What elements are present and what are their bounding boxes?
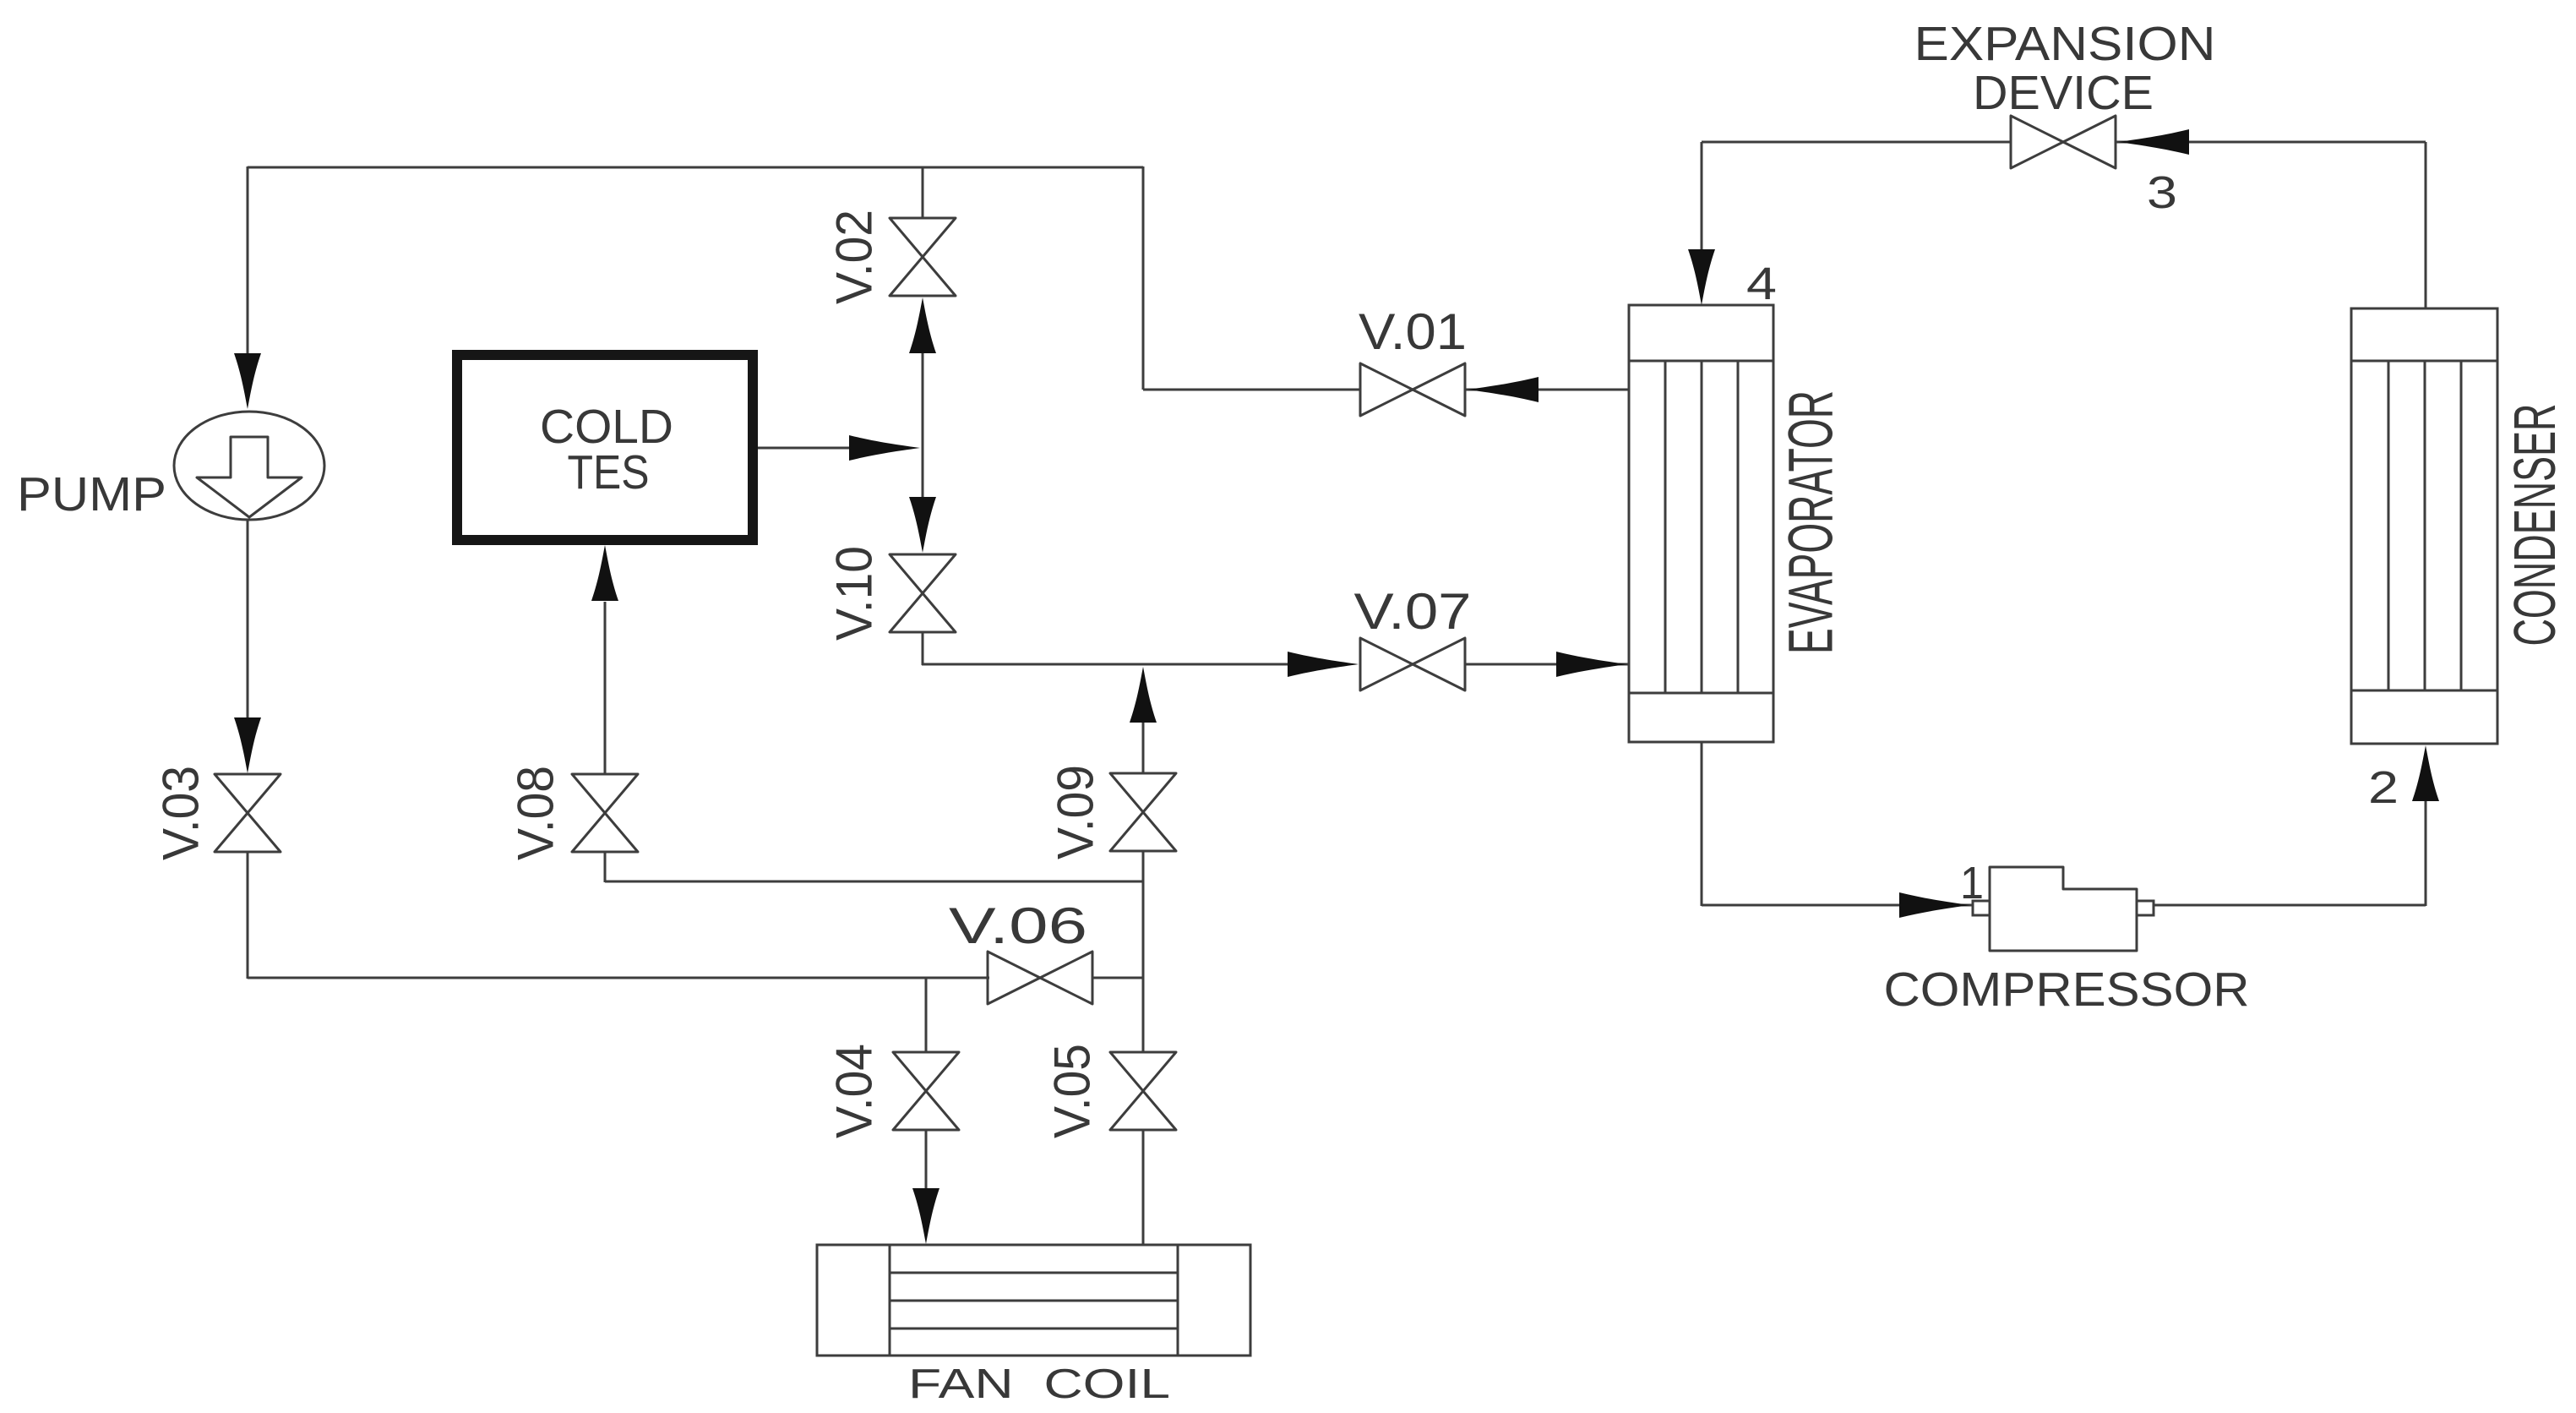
flow arrow into expansion device: [2118, 129, 2189, 155]
wire TES outlet to mixing node: [758, 447, 853, 450]
svg-text:TES: TES: [568, 445, 650, 499]
flow arrow before V.07: [1288, 652, 1359, 677]
label V.10: [826, 546, 883, 641]
pump P1: [174, 412, 324, 520]
wire expansion device to evaporator drop: [1701, 142, 1703, 254]
label TES: [568, 445, 650, 499]
wire V.04 branch drop: [925, 978, 928, 1053]
svg-text:3: 3: [2147, 167, 2177, 218]
evaporator E1: [1629, 305, 1773, 742]
flow arrow into evaporator side: [1556, 652, 1627, 677]
flow arrow into TES bottom: [591, 545, 618, 601]
wire top header from pump riser to V.01 drop: [248, 166, 1143, 169]
wire pump inlet riser: [247, 166, 249, 358]
label PUMP: [17, 467, 166, 521]
svg-text:4: 4: [1746, 259, 1777, 309]
flow arrow into V.03: [234, 717, 261, 773]
label V.07: [1354, 583, 1472, 640]
label V.02: [826, 210, 883, 304]
cold TES tank T1: [457, 355, 753, 540]
valve V.09: [1110, 773, 1176, 851]
wire V.09 down through headers to V.05: [1142, 851, 1145, 1053]
flow arrow into fan coil: [912, 1188, 939, 1244]
flow arrow up into chilled line: [1130, 667, 1157, 723]
svg-text:PUMP: PUMP: [17, 467, 166, 521]
wire V.08 inlet riser to TES: [604, 602, 607, 775]
wire condenser top riser: [2425, 142, 2427, 309]
svg-text:V.05: V.05: [1044, 1044, 1101, 1138]
node 4: [1746, 259, 1777, 309]
fan coil unit FC1: [817, 1245, 1250, 1356]
valve V.01: [1360, 363, 1465, 416]
label COLD: [540, 400, 673, 454]
compressor K1: [1973, 867, 2154, 951]
label CONDENSER: [2502, 404, 2568, 646]
label EXPANSION: [1914, 17, 2216, 71]
wire V.07 to evaporator: [1465, 663, 1629, 666]
label EVAPORATOR: [1776, 390, 1846, 654]
wire V.01 drop from top header: [1142, 166, 1145, 390]
wire V.10 outlet elbow to chilled water line: [922, 632, 1289, 665]
svg-text:EVAPORATOR: EVAPORATOR: [1776, 390, 1846, 654]
label V.05: [1044, 1044, 1101, 1138]
svg-text:EXPANSION: EXPANSION: [1914, 17, 2216, 71]
svg-text:V.10: V.10: [826, 546, 883, 641]
node 3: [2147, 167, 2177, 218]
svg-text:CONDENSER: CONDENSER: [2502, 404, 2568, 646]
valve V.02: [890, 218, 956, 296]
flow arrow up into V.02: [909, 297, 936, 353]
flow arrow into condenser bottom: [2412, 745, 2439, 801]
valve V.03: [215, 774, 280, 852]
node 2: [2368, 762, 2399, 813]
wire pump outlet down to V.03: [247, 520, 249, 723]
wire V.01 line left segment: [1143, 389, 1360, 391]
wire evaporator bottom drop: [1701, 742, 1703, 906]
wire compressor discharge line: [2154, 904, 2426, 907]
wire V.08 outlet elbow: [604, 853, 607, 882]
flow arrow into evaporator top: [1688, 249, 1715, 305]
flow arrow into pump: [234, 353, 261, 409]
svg-text:V.06: V.06: [949, 897, 1087, 954]
svg-text:V.09: V.09: [1048, 765, 1104, 859]
flow arrow down to V.10: [909, 497, 936, 553]
label V.06: [949, 897, 1087, 954]
wire expansion line left segment: [1702, 141, 2011, 144]
label V.03: [153, 766, 210, 860]
svg-text:V.01: V.01: [1359, 303, 1467, 360]
wire condenser bottom riser: [2425, 801, 2427, 906]
svg-text:V.02: V.02: [826, 210, 883, 304]
svg-text:DEVICE: DEVICE: [1973, 66, 2154, 120]
label V.01: [1359, 303, 1467, 360]
valve V.05: [1110, 1052, 1176, 1130]
condenser C1: [2351, 308, 2497, 744]
wire V.08 return header: [605, 881, 1144, 883]
svg-text:V.08: V.08: [508, 766, 564, 860]
valve V.08: [572, 774, 638, 852]
svg-text:2: 2: [2368, 762, 2399, 813]
wire V.04 to fan coil: [925, 1130, 928, 1190]
svg-text:V.04: V.04: [826, 1044, 883, 1138]
valve V.10: [890, 554, 956, 632]
wire mixing node riser: [922, 353, 924, 500]
wire V.02 drop from top header: [922, 166, 924, 219]
flow arrow into compressor: [1899, 892, 1970, 918]
junction riser V.09 to chilled line: [1142, 720, 1145, 774]
label V.08: [508, 766, 564, 860]
svg-text:COMPRESSOR: COMPRESSOR: [1884, 963, 2250, 1017]
svg-text:FAN COIL: FAN COIL: [908, 1361, 1170, 1407]
label V.09: [1048, 765, 1104, 859]
wire V.05 to fan coil: [1142, 1130, 1145, 1246]
label DEVICE: [1973, 66, 2154, 120]
wire bottom header right of V.06: [1092, 977, 1144, 979]
label COMPRESSOR: [1884, 963, 2250, 1017]
svg-text:V.07: V.07: [1354, 583, 1472, 640]
node 1: [1960, 858, 1984, 908]
flow arrow TES outlet: [849, 435, 920, 461]
svg-text:V.03: V.03: [153, 766, 210, 860]
wire V.03 to bottom header elbow: [248, 852, 989, 979]
expansion device valve EX1: [2011, 116, 2116, 168]
wire compressor suction line: [1702, 904, 1973, 907]
wire V.01 line right segment: [1465, 389, 1629, 391]
wire expansion line right segment: [2116, 141, 2426, 144]
flow arrow out of evaporator toward V.01: [1468, 377, 1539, 402]
valve V.04: [893, 1052, 959, 1130]
valve V.06: [988, 952, 1092, 1004]
label V.04: [826, 1044, 883, 1138]
label FAN COIL: [908, 1361, 1170, 1407]
valve V.07: [1360, 638, 1465, 690]
